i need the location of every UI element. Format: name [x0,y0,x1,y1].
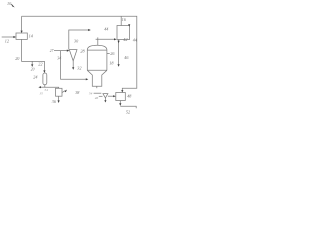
svg-text:22: 22 [38,62,42,67]
svg-text:54: 54 [89,91,93,95]
svg-text:46: 46 [124,55,129,60]
svg-text:34: 34 [57,56,61,61]
svg-text:30: 30 [74,39,79,44]
svg-text:38: 38 [75,90,80,95]
svg-text:10: 10 [7,1,12,6]
svg-text:52: 52 [126,110,130,115]
svg-text:44: 44 [104,27,108,32]
svg-text:34: 34 [44,88,48,92]
svg-text:12: 12 [5,39,9,44]
svg-text:16: 16 [122,17,127,22]
svg-text:24: 24 [33,75,37,80]
svg-text:26: 26 [110,51,115,56]
svg-text:44: 44 [133,38,137,43]
svg-text:18: 18 [109,60,114,65]
svg-text:35: 35 [40,91,44,95]
svg-text:27: 27 [50,49,54,53]
svg-text:20: 20 [15,56,20,61]
svg-text:46: 46 [95,96,99,100]
svg-text:14: 14 [29,33,33,38]
svg-text:36: 36 [52,99,57,104]
svg-text:42: 42 [123,37,127,42]
svg-text:32: 32 [77,66,81,71]
svg-text:48: 48 [127,94,132,99]
svg-text:28: 28 [80,48,85,53]
svg-text:20: 20 [31,67,35,71]
